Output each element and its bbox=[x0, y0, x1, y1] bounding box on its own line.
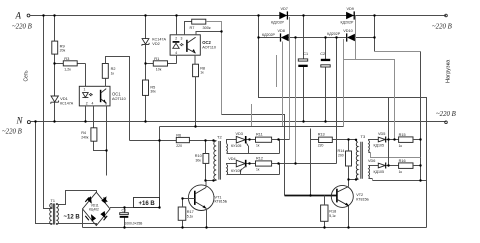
svg-text:R10: R10 bbox=[195, 154, 202, 158]
wire VD9 cathode drop bbox=[355, 16, 357, 60]
resistor R15 bbox=[399, 133, 421, 148]
diode VD9 bbox=[341, 7, 355, 25]
thyristor VD4 bbox=[228, 157, 255, 175]
zener VD1 bbox=[51, 96, 74, 105]
wire OC2 pin3 to R7 bbox=[185, 22, 192, 35]
svg-text:2: 2 bbox=[86, 102, 88, 106]
svg-text:R6: R6 bbox=[176, 134, 181, 138]
resistor R12 bbox=[256, 156, 272, 171]
svg-text:30к: 30к bbox=[150, 89, 156, 93]
wire y180 row bbox=[373, 180, 427, 182]
wire T1 sec bottom to bridge bbox=[58, 224, 97, 226]
svg-text:1,2к: 1,2к bbox=[64, 67, 71, 71]
resistor R13 bbox=[311, 133, 357, 148]
wire N to T1 bbox=[36, 122, 51, 224]
svg-text:200: 200 bbox=[338, 153, 344, 157]
wire R9 top loop bbox=[106, 57, 130, 141]
diode VD10 bbox=[327, 29, 355, 42]
wire base drive thick bbox=[285, 195, 337, 197]
wire VD2 branch bbox=[145, 16, 147, 122]
svg-text:R13: R13 bbox=[318, 133, 325, 137]
svg-text:300к: 300к bbox=[203, 26, 211, 30]
svg-text:R11: R11 bbox=[256, 133, 263, 137]
svg-text:5,1к: 5,1к bbox=[329, 214, 336, 218]
wire A bus bbox=[30, 15, 446, 17]
resistor R11 bbox=[256, 133, 272, 148]
wire OC1 emitter down bbox=[106, 106, 108, 176]
optocoupler OC2 bbox=[170, 35, 216, 55]
wire stub artifact bbox=[276, 55, 278, 87]
zener VD2 bbox=[142, 38, 167, 46]
svg-text:1к: 1к bbox=[256, 167, 260, 171]
svg-text:R7: R7 bbox=[190, 26, 195, 30]
svg-text:КЦ402: КЦ402 bbox=[89, 208, 99, 212]
svg-text:1к: 1к bbox=[111, 71, 115, 75]
svg-text:КД105: КД105 bbox=[374, 170, 385, 174]
svg-text:~220 В: ~220 В bbox=[12, 24, 32, 31]
capacitor C3 bbox=[120, 208, 143, 228]
resistor R6 bbox=[176, 134, 189, 149]
resistor R7 bbox=[190, 19, 211, 30]
wire stub y97 bbox=[251, 104, 253, 127]
wire VD8 cathode drop bbox=[282, 42, 284, 127]
svg-text:Т3: Т3 bbox=[361, 134, 366, 139]
thyristor VD3 bbox=[231, 132, 256, 154]
transistor VT1 bbox=[188, 185, 227, 211]
wire rectifier mid riser bbox=[388, 98, 390, 166]
svg-text:R15: R15 bbox=[399, 133, 406, 137]
wire bridge minus down bbox=[82, 209, 84, 228]
resistor R18 bbox=[321, 196, 337, 228]
wire y140 row bbox=[130, 140, 214, 142]
svg-text:~220 В: ~220 В bbox=[436, 111, 456, 118]
resistor R9 bbox=[102, 64, 115, 79]
svg-text:Нагрузка: Нагрузка bbox=[446, 59, 452, 83]
svg-text:~12 В: ~12 В bbox=[64, 214, 81, 220]
diode VD7 bbox=[271, 7, 288, 25]
svg-text:КТ815Б: КТ815Б bbox=[215, 200, 228, 204]
wire thyristor bus riser bbox=[336, 38, 338, 164]
svg-text:R16: R16 bbox=[399, 159, 406, 163]
svg-text:+16 В: +16 В bbox=[139, 201, 156, 207]
svg-text:10к: 10к bbox=[156, 67, 162, 71]
transformer T2 bbox=[214, 134, 236, 180]
wire A to T1 bbox=[44, 16, 51, 209]
svg-text:VD7: VD7 bbox=[281, 7, 288, 11]
wire OC2 pin4 down bbox=[176, 55, 178, 63]
svg-text:30к: 30к bbox=[196, 159, 202, 163]
resistor R2 bbox=[52, 41, 66, 54]
wire VT2 collector bbox=[349, 180, 357, 187]
svg-text:1000,0×25В: 1000,0×25В bbox=[125, 222, 144, 226]
svg-text:КД202Р: КД202Р bbox=[327, 32, 341, 36]
wire N bus bbox=[30, 121, 446, 123]
svg-text:КД202Р: КД202Р bbox=[341, 21, 355, 25]
svg-text:VD2: VD2 bbox=[152, 42, 159, 46]
svg-text:С3: С3 bbox=[122, 208, 127, 212]
wire T1 sec top to bridge bbox=[58, 191, 97, 205]
svg-text:240к: 240к bbox=[81, 136, 89, 140]
wire right column bbox=[420, 52, 422, 181]
svg-text:A: A bbox=[15, 11, 22, 21]
svg-text:VD9: VD9 bbox=[347, 7, 354, 11]
resistor R5 bbox=[143, 80, 157, 95]
svg-text:R12: R12 bbox=[256, 156, 263, 160]
svg-text:1к: 1к bbox=[399, 144, 403, 148]
wire R11 out bbox=[272, 139, 290, 141]
svg-text:АОТ110: АОТ110 bbox=[202, 45, 216, 49]
resistor R10 bbox=[195, 141, 209, 181]
svg-text:КД105: КД105 bbox=[374, 144, 385, 148]
svg-text:5: 5 bbox=[105, 102, 107, 106]
svg-text:R4: R4 bbox=[81, 131, 86, 135]
svg-text:VD10: VD10 bbox=[343, 29, 353, 33]
svg-text:R18: R18 bbox=[329, 209, 336, 213]
transformer T1 bbox=[50, 199, 59, 224]
wire drive to VT2 base bbox=[222, 115, 285, 196]
wire bottom bus bbox=[83, 227, 427, 229]
svg-text:~220 В: ~220 В bbox=[432, 24, 452, 31]
svg-text:220: 220 bbox=[318, 143, 324, 147]
svg-text:1к: 1к bbox=[399, 170, 403, 174]
wire R7 right chain bbox=[206, 22, 222, 115]
svg-text:220: 220 bbox=[176, 144, 182, 148]
svg-text:ОС2: ОС2 bbox=[202, 40, 211, 45]
transformer T3 bbox=[356, 134, 378, 179]
terminal N bbox=[2, 116, 30, 136]
svg-text:VT2: VT2 bbox=[356, 193, 363, 197]
diode VD5 bbox=[374, 132, 399, 147]
wire T3 sec return2 bbox=[372, 179, 374, 181]
resistor R1 bbox=[153, 56, 167, 71]
resistor R3 bbox=[63, 56, 77, 71]
resistor R8 bbox=[193, 64, 205, 77]
wire OC1 led cathode to N bbox=[85, 106, 87, 122]
wire R1 row bbox=[146, 55, 177, 63]
wire VD7 cathode drop bbox=[289, 17, 291, 140]
svg-text:1к: 1к bbox=[200, 71, 204, 75]
terminal A bbox=[12, 11, 32, 31]
wire R8 down bbox=[195, 77, 197, 127]
wire +16V riser bbox=[159, 127, 161, 208]
svg-text:КД202Р: КД202Р bbox=[271, 21, 285, 25]
svg-text:Сеть: Сеть bbox=[24, 70, 30, 82]
resistor R4 bbox=[81, 128, 97, 141]
svg-text:~220 В: ~220 В bbox=[2, 129, 22, 136]
svg-text:С2: С2 bbox=[320, 52, 325, 56]
wire OC2 collector bbox=[196, 32, 222, 35]
svg-text:R1: R1 bbox=[154, 56, 160, 61]
wire VT1 base bbox=[183, 198, 195, 200]
wire R2 branch bbox=[54, 16, 56, 122]
svg-text:VD4: VD4 bbox=[228, 157, 235, 161]
wire VT1 emitter bbox=[206, 208, 208, 227]
wire R3 row bbox=[55, 64, 86, 87]
svg-text:1к: 1к bbox=[256, 144, 260, 148]
diode VD8 bbox=[262, 29, 289, 42]
resistor R16 bbox=[399, 159, 421, 174]
bridge rectifier VD11 bbox=[83, 192, 111, 225]
wire OC2 emitter to R8 bbox=[194, 55, 196, 64]
svg-text:VD6: VD6 bbox=[368, 159, 375, 163]
svg-text:VD1: VD1 bbox=[60, 96, 69, 101]
svg-text:VT1: VT1 bbox=[215, 195, 222, 199]
svg-text:КД202Р: КД202Р bbox=[262, 33, 276, 37]
svg-text:ОС1: ОС1 bbox=[112, 92, 121, 97]
capacitor C1 bbox=[298, 16, 308, 122]
svg-text:Т1: Т1 bbox=[51, 199, 55, 203]
svg-text:2: 2 bbox=[175, 36, 177, 40]
svg-text:VD5: VD5 bbox=[378, 132, 385, 136]
svg-text:КУ105: КУ105 bbox=[231, 169, 241, 173]
svg-text:АОТ110: АОТ110 bbox=[112, 97, 126, 101]
wire VD10 drop chain bbox=[344, 39, 395, 140]
terminal right load bbox=[436, 111, 456, 124]
wire T3 sec return1 bbox=[371, 153, 421, 158]
wire +16V rail bbox=[110, 207, 160, 209]
svg-text:20к: 20к bbox=[60, 49, 66, 53]
svg-text:N: N bbox=[16, 116, 24, 126]
svg-text:С1: С1 bbox=[303, 52, 308, 56]
wire VD3 gate loop bbox=[227, 140, 280, 154]
svg-text:3: 3 bbox=[181, 36, 183, 40]
wire cross link bbox=[375, 51, 421, 53]
wire VT2 emitter bbox=[348, 206, 350, 228]
capacitor C2 bbox=[320, 38, 330, 122]
wire VD4 gate loop bbox=[227, 164, 280, 175]
svg-text:4: 4 bbox=[175, 51, 177, 55]
wire OC2 pin2 up bbox=[176, 16, 178, 35]
wire OC1 pin to R4 bbox=[94, 106, 107, 151]
transistor VT2 bbox=[331, 185, 369, 207]
svg-text:R17: R17 bbox=[187, 210, 194, 214]
svg-text:R3: R3 bbox=[64, 56, 70, 61]
svg-text:КТ815Б: КТ815Б bbox=[356, 197, 369, 201]
svg-text:КУ105: КУ105 bbox=[231, 144, 241, 148]
optocoupler OC1 bbox=[79, 86, 125, 106]
svg-text:VD8: VD8 bbox=[278, 29, 285, 33]
svg-text:4: 4 bbox=[92, 102, 94, 106]
wire R13 riser bbox=[310, 129, 312, 196]
resistor R14 bbox=[338, 140, 352, 180]
wire VD8 drop bbox=[295, 38, 297, 164]
wire bus2 bbox=[259, 37, 375, 39]
wire left riser to y97 bbox=[259, 16, 427, 228]
svg-text:КС147А: КС147А bbox=[60, 101, 74, 105]
svg-text:1: 1 bbox=[84, 88, 86, 92]
terminal right top bbox=[432, 14, 452, 30]
wire VT1 collector bbox=[206, 181, 214, 188]
svg-text:Т2: Т2 bbox=[217, 134, 222, 139]
resistor R17 bbox=[178, 199, 194, 228]
diode VD6 bbox=[368, 159, 399, 174]
svg-text:VD3: VD3 bbox=[236, 132, 243, 136]
wire R12 out bbox=[272, 163, 337, 165]
label +16 В bbox=[134, 198, 160, 208]
wire y126 line bbox=[160, 126, 344, 128]
svg-text:5,1к: 5,1к bbox=[187, 214, 194, 218]
wire right riser bbox=[374, 16, 376, 52]
